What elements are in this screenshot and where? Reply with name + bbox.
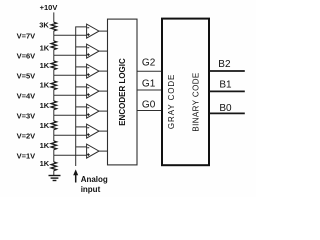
node Analog input label (81, 175, 108, 194)
wire bus to comparator U2 top input (76, 46, 87, 48)
op-amp comparator U3 (87, 64, 99, 78)
wire tap V=5V to comparator U3 + input (54, 74, 87, 76)
svg-text:V=7V: V=7V (17, 31, 36, 40)
wire 3K to node V=7V (53, 31, 55, 35)
svg-text:1K: 1K (40, 159, 50, 168)
node V=1V label (17, 151, 36, 160)
ground (49, 176, 61, 181)
wire comparator U7 output to encoder (99, 150, 108, 152)
resistor 1K (below V=6V tap) (40, 55, 57, 75)
wire output B1 (210, 90, 245, 92)
node V=5V label (17, 71, 36, 80)
node V=4V label (17, 91, 36, 100)
svg-text:ENCODER LOGIC: ENCODER LOGIC (118, 58, 127, 126)
svg-text:GRAY CODE: GRAY CODE (167, 74, 176, 129)
node V=3V label (17, 111, 36, 120)
wire output B2 (210, 70, 245, 72)
op-amp comparator U6 (87, 124, 99, 138)
svg-text:V=2V: V=2V (17, 131, 36, 140)
svg-text:1K: 1K (40, 121, 50, 130)
node V=6V label (17, 51, 36, 60)
svg-text:V=5V: V=5V (17, 71, 36, 80)
resistor 1K (below V=7V tap) (40, 35, 57, 55)
svg-text:3K: 3K (39, 21, 49, 30)
op-amp comparator U1 (87, 24, 99, 38)
svg-text:1K: 1K (40, 101, 50, 110)
resistor 1K (below V=1V tap) (40, 155, 57, 175)
wire bus to comparator U5 top input (76, 106, 87, 108)
wire tap V=4V to comparator U4 + input (54, 94, 87, 96)
wire bus to comparator U4 top input (76, 86, 87, 88)
node B2 label (218, 59, 231, 70)
wire G1 encoder to gray code (137, 89, 161, 91)
wire comparator U2 output to encoder (99, 50, 108, 52)
wire tap V=2V to comparator U6 + input (54, 134, 87, 136)
node V=7V label (17, 31, 36, 40)
wire bus to comparator U7 top input (76, 146, 87, 148)
wire comparator U4 output to encoder (99, 90, 108, 92)
svg-text:V=4V: V=4V (17, 91, 36, 100)
wire from +10V to resistor 3K (53, 12, 55, 22)
node +10V supply label (40, 3, 58, 12)
gray code / binary code block U9 (162, 19, 209, 166)
wire tap V=6V to comparator U2 + input (54, 54, 87, 56)
op-amp comparator U7 (87, 144, 99, 158)
svg-text:1K: 1K (40, 44, 50, 53)
node B1 label (219, 80, 232, 91)
svg-text:B1: B1 (219, 80, 232, 91)
svg-text:B0: B0 (219, 103, 232, 114)
svg-text:G0: G0 (142, 100, 156, 111)
wire comparator U3 output to encoder (99, 70, 108, 72)
wire comparator U1 output to encoder (99, 30, 108, 32)
svg-text:1K: 1K (40, 81, 50, 90)
wire tap V=7V to comparator U1 + input (54, 34, 87, 36)
node B0 label (219, 103, 232, 114)
svg-text:G2: G2 (142, 58, 156, 69)
resistor 1K (below V=3V tap) (40, 115, 57, 135)
svg-text:V=6V: V=6V (17, 51, 36, 60)
resistor 1K (below V=2V tap) (40, 135, 57, 155)
svg-text:V=3V: V=3V (17, 111, 36, 120)
analog input arrow (73, 169, 78, 182)
svg-text:1K: 1K (40, 141, 50, 150)
wire G0 encoder to gray code (137, 110, 161, 112)
wire output B0 (210, 112, 245, 114)
node G2 label (142, 58, 156, 69)
node G1 label (142, 79, 156, 90)
svg-text:G1: G1 (142, 79, 156, 90)
op-amp comparator U5 (87, 104, 99, 118)
svg-text:+10V: +10V (40, 3, 58, 12)
svg-text:V=1V: V=1V (17, 151, 36, 160)
node V=2V label (17, 131, 36, 140)
op-amp comparator U4 (87, 84, 99, 98)
resistor 1K (below V=4V tap) (40, 95, 57, 115)
wire tap V=1V to comparator U7 + input (54, 154, 87, 156)
encoder logic block U8 (108, 19, 138, 165)
svg-text:B2: B2 (218, 59, 231, 70)
svg-text:input: input (81, 185, 101, 194)
op-amp comparator U2 (87, 44, 99, 58)
svg-text:Analog: Analog (81, 175, 108, 184)
svg-text:BINARY CODE: BINARY CODE (192, 72, 201, 131)
node G0 label (142, 100, 156, 111)
resistor 3K (top of ladder) (39, 21, 56, 31)
wire bus to comparator U3 top input (76, 66, 87, 68)
wire comparator U5 output to encoder (99, 110, 108, 112)
wire bus to comparator U6 top input (76, 126, 87, 128)
resistor 1K (below V=5V tap) (40, 75, 57, 95)
wire G2 encoder to gray code (137, 70, 161, 72)
wire analog input bus (vertical) (76, 27, 87, 166)
wire tap V=3V to comparator U5 + input (54, 114, 87, 116)
wire comparator U6 output to encoder (99, 130, 108, 132)
svg-text:1K: 1K (40, 61, 50, 70)
